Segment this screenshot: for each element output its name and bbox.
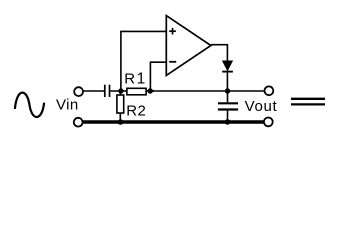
DC symbol — [291, 99, 325, 105]
wire node A to op-amp + input — [121, 31, 166, 91]
wire op-amp output to diode — [211, 45, 228, 62]
svg-text:R2: R2 — [126, 103, 146, 120]
junction dot R2-ground — [118, 119, 124, 125]
node A junction dot — [118, 88, 123, 93]
op-amp + pin mark — [169, 30, 176, 32]
diode D1 — [222, 61, 233, 72]
svg-text:Vout: Vout — [245, 98, 278, 115]
svg-text:Vin: Vin — [56, 97, 79, 114]
terminal Vin+ — [74, 87, 83, 96]
wire C1 to node A — [110, 90, 127, 92]
terminal Vout+ — [265, 86, 274, 95]
junction dot C2-ground — [225, 119, 231, 125]
wire node B to op-amp - input — [150, 62, 166, 91]
node C junction dot — [225, 88, 230, 93]
resistor R1 — [127, 88, 146, 95]
svg-text:R: R — [124, 70, 135, 87]
resistor R2 — [117, 91, 124, 121]
wire R1 to node B — [146, 90, 154, 92]
op-amp - pin mark — [169, 61, 176, 63]
svg-text:1: 1 — [137, 70, 146, 87]
ground bus wire (bottom) — [83, 120, 264, 123]
capacitor C1 — [105, 85, 110, 97]
capacitor C2 — [218, 91, 238, 121]
wire diode to node C — [226, 72, 228, 91]
AC sine symbol — [15, 93, 44, 117]
terminal Vout- — [264, 118, 273, 127]
main output wire node B to Vout — [150, 90, 264, 92]
node B junction dot — [148, 88, 153, 93]
wire Vin+ to C1 — [83, 90, 104, 92]
op-amp U1 — [166, 16, 211, 76]
terminal Vin- — [74, 118, 83, 127]
